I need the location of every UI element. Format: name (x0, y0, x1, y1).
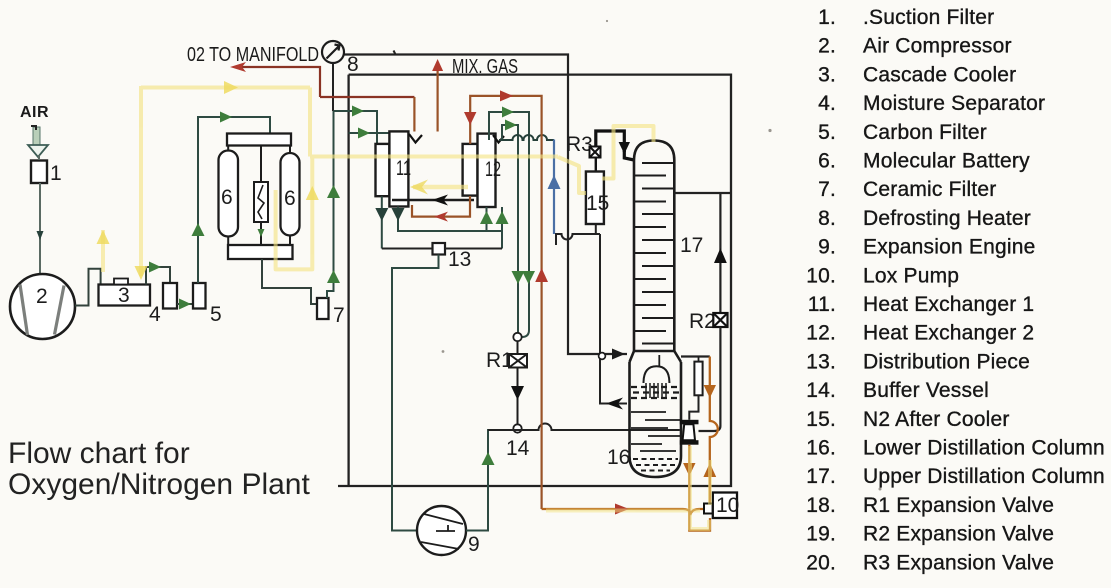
R3 to column 17 thick line (596, 131, 625, 152)
svg-text:4.: 4. (818, 92, 836, 115)
svg-text:1.: 1. (818, 6, 836, 29)
buffer vessel node 14 (513, 424, 521, 432)
svg-text:9.: 9. (818, 236, 836, 259)
N2 drop to column16 (600, 234, 627, 404)
green arrow on y111 (352, 106, 364, 117)
element zigzag (258, 185, 264, 219)
svg-text:Ceramic Filter: Ceramic Filter (863, 178, 996, 201)
svg-text:14: 14 (506, 437, 530, 460)
pipe 3 to 4 (146, 267, 170, 285)
stub up into HX12 right (501, 207, 503, 249)
svg-text:Oxygen/Nitrogen Plant: Oxygen/Nitrogen Plant (8, 468, 310, 501)
svg-text:18.: 18. (806, 494, 836, 517)
svg-text:R1 Expansion Valve: R1 Expansion Valve (863, 494, 1054, 517)
svg-text:8.: 8. (818, 207, 836, 230)
carbon filter 5 (193, 283, 206, 309)
node14 horizontal run with hop over brown (488, 424, 680, 431)
column16 right side line (681, 355, 710, 357)
line 13 down to engine 9 (392, 255, 439, 531)
R3 valve to 15 (595, 158, 597, 172)
svg-text:R2 Expansion Valve: R2 Expansion Valve (863, 523, 1054, 546)
svg-text:Lower Distillation Column: Lower Distillation Column (863, 437, 1105, 460)
svg-text:5.: 5. (818, 121, 836, 144)
distribution piece 13 (433, 243, 446, 255)
junction chevron HX11 top (409, 134, 422, 143)
yellow highlight path left (compressor loop) (103, 86, 558, 276)
R3 expansion valve (590, 147, 601, 158)
green arrow loop1 (502, 107, 514, 118)
cold box left edge (347, 75, 349, 486)
heat exchanger 11 right shell (389, 131, 408, 206)
svg-text:1: 1 (50, 162, 62, 185)
svg-text:5: 5 (210, 303, 222, 326)
battery heater element (254, 182, 268, 222)
svg-text:4: 4 (149, 303, 161, 326)
green arrow on y133 (358, 128, 370, 139)
svg-text:Heat Exchanger 1: Heat Exchanger 1 (863, 293, 1034, 316)
black arrow down (511, 386, 524, 400)
subcooler spool (680, 420, 699, 445)
column 17 trays (634, 163, 674, 344)
green arrow up (496, 211, 509, 224)
column 17 to box right edge line (674, 192, 731, 194)
15 outlet stub (595, 224, 597, 234)
battery bottom header (228, 245, 293, 259)
gauge to subcooler (689, 395, 698, 420)
line R1 to node 14 (517, 368, 519, 425)
HX11 second stub and cross run to HX12 bottom (398, 207, 502, 232)
expansion engine 9 (417, 506, 466, 555)
line 13 left (382, 248, 433, 250)
green arrow right on top run (220, 112, 232, 123)
small arrow on pipe (37, 231, 44, 240)
svg-text:8: 8 (347, 53, 359, 76)
green arrow 3-4 (149, 262, 161, 273)
brown U line below (412, 196, 470, 217)
pump bottom loop (689, 509, 710, 531)
junction circle above R1 (513, 333, 521, 341)
pipe 7 up to air header (327, 111, 334, 298)
svg-text:Defrosting Heater: Defrosting Heater (863, 207, 1031, 230)
dark arrow down second stub (392, 208, 405, 221)
lower distillation column 16 (630, 362, 682, 477)
svg-text:11.: 11. (808, 293, 836, 316)
R2 riser (719, 193, 721, 313)
stub up into HX12 (486, 207, 488, 231)
battery stubs (228, 146, 290, 246)
pipe compressor to cooler 3 (75, 269, 101, 306)
svg-text:17.: 17. (806, 465, 836, 488)
svg-text:Moisture Separator: Moisture Separator (863, 92, 1045, 115)
gauge top stub (698, 357, 700, 362)
air compressor 2 (10, 274, 75, 339)
green arrow up (480, 211, 493, 224)
svg-text:14.: 14. (806, 379, 836, 402)
svg-text:16: 16 (607, 446, 630, 469)
air line from 7 up and over to HX11 (y=111) (334, 111, 378, 144)
brown riser HX11 to O2 line (413, 97, 415, 132)
R2 down to subcooler (699, 327, 721, 431)
svg-text:Air Compressor: Air Compressor (863, 35, 1012, 58)
cooler bump (114, 279, 128, 285)
svg-text:R3 Expansion Valve: R3 Expansion Valve (863, 551, 1054, 574)
svg-text:R2: R2 (689, 310, 716, 333)
svg-text:Distribution Piece: Distribution Piece (863, 350, 1030, 373)
O2 to manifold red line (240, 67, 414, 97)
legend (806, 6, 1105, 574)
AIR green arrow (28, 126, 48, 157)
svg-text:6: 6 (221, 186, 233, 209)
svg-text:Molecular Battery: Molecular Battery (863, 150, 1030, 173)
O2 arrowhead (230, 62, 246, 72)
svg-text:MIX. GAS: MIX. GAS (452, 56, 518, 78)
green arrows on 7 riser (327, 185, 340, 198)
green arrow up on riser (192, 223, 205, 236)
arrow feed into column 16 (612, 349, 625, 360)
blue riser (553, 140, 555, 235)
red arrow on brown U (434, 212, 448, 222)
junction chevron HX12 top (493, 135, 504, 143)
svg-text:3: 3 (118, 284, 130, 307)
svg-text:2: 2 (36, 285, 48, 308)
battery left vessel (219, 151, 239, 237)
svg-text:Lox Pump: Lox Pump (863, 264, 959, 287)
black arrow left out of column16 (606, 398, 623, 410)
brown arrow right bottom run (615, 504, 629, 515)
green arrows down to R1 (512, 271, 525, 284)
svg-text:Heat Exchanger 2: Heat Exchanger 2 (863, 322, 1034, 345)
pipe 5 up to molecular battery (198, 117, 270, 283)
pipe 4 to 5 (177, 303, 193, 305)
junction circle on feed line (599, 353, 606, 360)
svg-text:10: 10 (716, 494, 739, 517)
svg-text:19.: 19. (806, 523, 836, 546)
condenser stub (658, 355, 660, 366)
svg-text:20.: 20. (806, 551, 836, 574)
brown arrow up on riser (703, 463, 716, 477)
svg-text:15.: 15. (806, 408, 836, 431)
svg-text:.Suction Filter: .Suction Filter (863, 6, 994, 29)
brown arrow down drain (683, 463, 695, 476)
yellow arrowheads (97, 81, 319, 280)
svg-text:Cascade Cooler: Cascade Cooler (863, 63, 1016, 86)
svg-text:12: 12 (485, 158, 501, 181)
yellow highlight along pump lines (546, 446, 710, 529)
level gauge (694, 362, 702, 396)
svg-text:11: 11 (396, 157, 411, 180)
upper distillation column 17 (630, 141, 682, 363)
defrost line top: circle8 to box, down into column16 (344, 55, 627, 355)
svg-text:9: 9 (468, 533, 480, 556)
scan specks (442, 20, 882, 491)
yellow highlight near R3 and 15 (558, 126, 654, 193)
brown line over HX12 top (470, 96, 541, 509)
pipe 1 to compressor (39, 155, 40, 274)
wavy hop line HX12 top to blue riser (499, 135, 554, 140)
svg-text:16.: 16. (806, 437, 836, 460)
blue arrow up (548, 175, 561, 189)
svg-text:7: 7 (333, 304, 345, 327)
molecular battery top header (227, 134, 291, 146)
black arrow left on U (432, 195, 448, 206)
condenser dome in 16 (644, 366, 670, 383)
lox pump 10 (704, 504, 713, 514)
teal loops above HX12 (489, 112, 529, 337)
cascade cooler 3 (99, 285, 151, 306)
svg-text:Expansion Engine: Expansion Engine (863, 236, 1036, 259)
moisture separator 4 (163, 283, 177, 309)
svg-text:12.: 12. (806, 322, 836, 345)
R1 expansion valve (509, 341, 527, 367)
heat exchanger 11 left shell (376, 144, 390, 196)
mix gas arrowhead (432, 59, 443, 71)
N2 after cooler 15 (586, 172, 604, 225)
svg-text:Flow chart for: Flow chart for (8, 437, 190, 470)
black U line between HX bottoms (392, 199, 474, 202)
green arrow up riser (482, 452, 495, 465)
green arrow 4-5 (179, 299, 191, 310)
suction filter 1 (31, 161, 47, 184)
line 13 right (445, 248, 502, 250)
heat exchanger 12 left shell (463, 144, 478, 196)
branch at y=133 into HX11 (349, 132, 390, 134)
dark arrow down (375, 208, 388, 221)
pipe battery to ceramic filter 7 (262, 259, 317, 304)
R2 expansion valve (713, 313, 727, 327)
black arrow down R3 line (619, 142, 630, 154)
svg-text:17: 17 (680, 234, 703, 257)
svg-text:3.: 3. (818, 63, 836, 86)
svg-text:10.: 10. (806, 264, 836, 287)
engine outlet riser to node 14 (466, 430, 513, 531)
svg-text:N2 After Cooler: N2 After Cooler (863, 408, 1010, 431)
svg-text:Upper Distillation Column: Upper Distillation Column (863, 465, 1105, 488)
svg-text:13.: 13. (806, 350, 836, 373)
bottom liquid dashes (633, 459, 678, 471)
svg-text:Carbon Filter: Carbon Filter (863, 121, 987, 144)
svg-text:AIR: AIR (20, 104, 49, 121)
mix gas riser from HX11 (437, 66, 439, 132)
yellow arrow between heat exchangers (413, 185, 468, 190)
ceramic filter 7 (317, 298, 329, 319)
brick dash rows in 16 (631, 387, 680, 398)
svg-text:02 TO MANIFOLD: 02 TO MANIFOLD (187, 44, 319, 66)
red arrow up on long drop (535, 268, 548, 282)
battery right vessel (281, 153, 300, 236)
subcooler drain down (688, 445, 690, 509)
small green arrow at element drain (258, 229, 265, 237)
red arrow right on top run (500, 90, 513, 101)
green arrow loop2 (505, 120, 517, 131)
heat exchanger 12 right shell (478, 134, 496, 207)
outer cold box (338, 75, 731, 486)
brown arrow down on riser (704, 385, 716, 398)
HX11 bottom left stub down to 13 (381, 196, 383, 248)
condenser hatch (646, 383, 666, 398)
svg-text:15: 15 (586, 192, 609, 215)
svg-text:6.: 6. (818, 150, 836, 173)
bottom run to pump (542, 509, 704, 513)
liquid lines in 16 (631, 412, 680, 451)
red arrow down into HX12 (464, 112, 476, 125)
tick on defrost line (394, 51, 396, 55)
defroster heater circle 8 (322, 41, 344, 63)
svg-text:7.: 7. (818, 178, 836, 201)
black arrow up R2 riser (714, 248, 727, 263)
stem below circle 8 (332, 63, 334, 111)
N2 collect line below 15 with hop (556, 234, 600, 245)
svg-text:Buffer Vessel: Buffer Vessel (863, 379, 989, 402)
svg-text:2.: 2. (818, 35, 836, 58)
svg-text:6: 6 (284, 187, 296, 210)
svg-text:13: 13 (448, 248, 471, 271)
lox pump discharge brown riser (710, 357, 718, 504)
